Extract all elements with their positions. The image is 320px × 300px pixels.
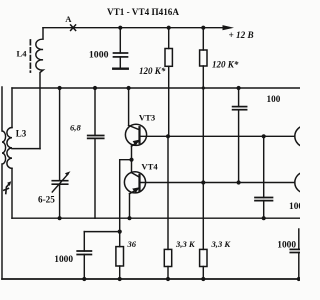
inductor L3	[7, 128, 12, 169]
wire L3 bottom lead	[11, 168, 13, 218]
svg-text:6-25: 6-25	[38, 195, 55, 205]
junction dot 36 resistor node	[118, 230, 122, 234]
junction dot top rail / R120K no.2	[201, 26, 205, 30]
junction dot ground rail / 3,3K no.1	[166, 277, 170, 281]
junction dot VT3 base / 3,3K no.1	[166, 134, 170, 138]
wire VT3 base line	[140, 135, 295, 137]
junction dot VT3 emitter / VT4 collector	[129, 158, 133, 162]
label 3,3 K no.1	[175, 239, 196, 249]
junction dot top rail / 1000 cap	[118, 26, 122, 30]
junction dot VT3 base / 1000 cap	[262, 134, 266, 138]
node A label	[65, 14, 72, 24]
resistor R 120K no.2	[200, 28, 207, 250]
label 100	[267, 94, 281, 104]
wire emitter branch to 1000 cap	[84, 231, 119, 233]
svg-text:1000: 1000	[54, 255, 73, 265]
svg-text:36: 36	[127, 239, 137, 249]
inductor L4	[36, 28, 43, 149]
svg-text:+ 12 В: + 12 В	[229, 30, 254, 40]
ground under 1000 cap	[113, 68, 128, 70]
svg-text:1000: 1000	[89, 50, 109, 61]
svg-text:100: 100	[267, 94, 281, 104]
junction dot VT4 base / 100 cap	[237, 180, 241, 184]
label L3	[16, 129, 27, 139]
title label VT1-VT4 П416А	[107, 7, 179, 17]
svg-text:1000: 1000	[289, 202, 300, 212]
label 6-25	[38, 195, 55, 205]
svg-text:A: A	[65, 14, 72, 24]
svg-text:120 К*: 120 К*	[139, 66, 166, 76]
wire L3 top lead	[11, 88, 13, 128]
capacitor 6.8	[88, 88, 104, 218]
svg-text:L3: L3	[16, 129, 27, 139]
svg-text:6,8: 6,8	[70, 123, 81, 133]
svg-text:120 К*: 120 К*	[212, 60, 239, 70]
svg-text:3,3 К: 3,3 К	[175, 239, 196, 249]
junction dot ground rail / 36	[118, 277, 122, 281]
svg-text:3,3 К: 3,3 К	[211, 239, 232, 249]
label 1000 top	[89, 50, 109, 61]
label VT4	[141, 161, 158, 171]
resistor 36	[116, 232, 124, 279]
capacitor 1000 right (VT3 base bypass)	[255, 136, 273, 218]
wire +12V top rail	[43, 27, 223, 29]
junction dot top rail / R120K no.1	[167, 26, 171, 30]
label 3,3 K no.2	[211, 239, 232, 249]
L4 core dashes	[29, 40, 31, 72]
label 1000 bottom right	[277, 240, 296, 250]
junction dot tank rail / varcap	[58, 216, 62, 220]
junction dot mid rail / 100 cap	[237, 86, 241, 90]
junction dot tank rail / 1000 cap	[262, 216, 266, 220]
capacitor 100 feedback	[233, 88, 247, 183]
label 6,8	[70, 123, 81, 133]
resistor 3,3K no.1	[164, 136, 171, 279]
label 120 K* no.2	[212, 60, 239, 70]
transistor VT2 partial right bottom	[295, 172, 316, 193]
wire rail mid (tank top) y=88	[12, 87, 300, 89]
variable capacitor 6-25	[52, 88, 70, 218]
wire VT4 base line	[140, 182, 295, 184]
svg-text:VT3: VT3	[139, 112, 155, 122]
+12V arrow	[223, 25, 235, 30]
junction dot VT4 base / R column no.2	[201, 180, 205, 184]
label +12 B	[229, 30, 254, 40]
label 120 K* no.1	[139, 66, 166, 76]
transistor VT1 partial right top	[295, 126, 316, 147]
resistor R 120K no.1	[165, 28, 172, 137]
transistor VT4	[124, 160, 145, 219]
capacitor 1000 top (decoupling)	[114, 28, 128, 68]
wire tank bottom rail	[12, 217, 300, 219]
junction dot mid rail / VT3 collector	[127, 86, 131, 90]
label VT3	[139, 112, 155, 122]
label 36	[127, 239, 137, 249]
capacitor 1000 bottom left	[77, 232, 91, 279]
label 1000 bottom left	[54, 255, 73, 265]
svg-text:VT4: VT4	[141, 161, 158, 171]
junction dot mid rail / R120K no.2 column	[202, 86, 205, 89]
junction dot ground rail / 1000 cap right	[297, 277, 301, 281]
svg-text:VT1 - VT4 П416А: VT1 - VT4 П416А	[107, 7, 179, 17]
junction dot ground rail / 1000 cap	[82, 277, 86, 281]
antenna coil (left winding)	[2, 87, 6, 279]
capacitor 1000 bottom right corner	[290, 229, 302, 279]
svg-text:L4: L4	[17, 49, 28, 59]
junction dot mid rail / 6.8 cap	[93, 86, 97, 90]
wire ground bottom rail	[2, 278, 300, 280]
wire L3 tap to L4	[12, 148, 40, 150]
wire VT3 emitter branch left	[120, 160, 132, 232]
transistor VT3	[125, 88, 146, 160]
label 1000 right clipped	[289, 202, 308, 212]
label L4	[17, 49, 28, 59]
junction dot mid rail / varcap	[58, 86, 62, 90]
node A x-marker on wire	[71, 25, 76, 31]
junction dot ground rail / 3,3K no.2	[201, 277, 205, 281]
resistor 3,3K no.2	[200, 249, 207, 279]
antenna arrow symbol	[4, 181, 11, 193]
junction dot tank rail / VT4 emitter	[127, 216, 131, 220]
svg-text:1000: 1000	[277, 240, 296, 250]
